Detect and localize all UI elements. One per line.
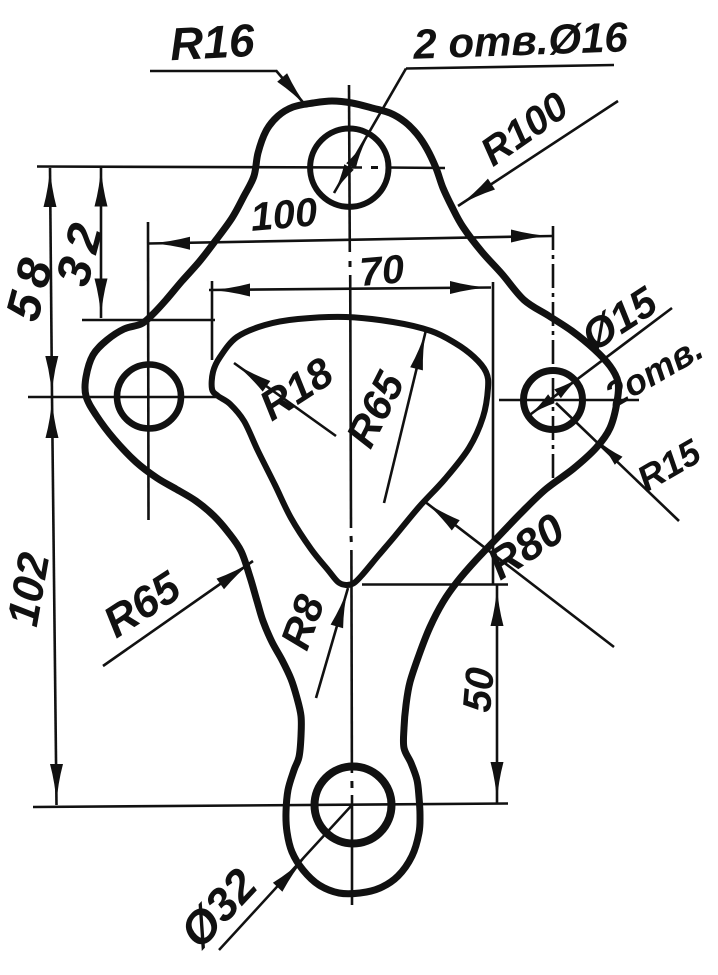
svg-text:50: 50 bbox=[455, 666, 503, 714]
svg-text:70: 70 bbox=[358, 247, 406, 295]
svg-text:2 отв.Ø16: 2 отв.Ø16 bbox=[412, 13, 630, 68]
svg-text:R16: R16 bbox=[169, 14, 256, 70]
svg-text:100: 100 bbox=[249, 190, 319, 240]
